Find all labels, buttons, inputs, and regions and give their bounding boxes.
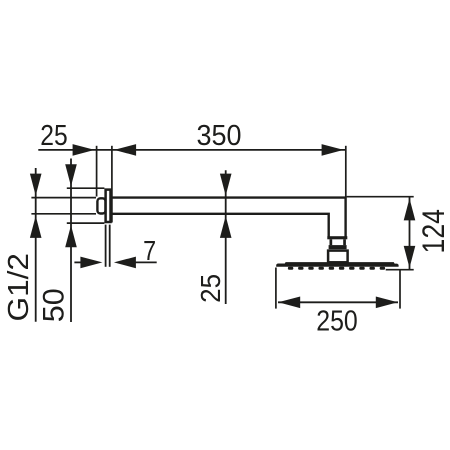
head nozzles <box>288 267 385 270</box>
25 arm arrow up <box>220 216 232 238</box>
svg-text:25: 25 <box>40 120 67 152</box>
shower arm inner edge <box>112 214 329 238</box>
50 dimension line <box>70 159 72 323</box>
G1/2 arrow down <box>30 174 42 196</box>
shower head slab <box>276 262 398 267</box>
top dimension line (25 / 350) <box>38 149 346 151</box>
svg-text:7: 7 <box>143 235 156 266</box>
G1/2 ext line bottom <box>31 213 96 215</box>
svg-text:250: 250 <box>316 306 358 338</box>
124 ext line bottom <box>386 269 414 271</box>
svg-text:G1/2: G1/2 <box>3 253 35 322</box>
250 arrow right <box>376 297 398 309</box>
wall flange plate <box>106 190 111 222</box>
connector neck left wall <box>330 239 333 245</box>
drop shoulder band <box>327 236 347 239</box>
50 ext line top <box>67 187 105 189</box>
250 arrow left <box>278 297 300 309</box>
G1/2 dimension line <box>35 168 37 322</box>
extension line wall plane <box>96 146 98 197</box>
25 arm arrow down <box>220 174 232 196</box>
7 dimension left segment <box>74 261 86 263</box>
G1/2 arrow up <box>30 216 42 238</box>
shower arm outer edge <box>112 198 346 238</box>
svg-text:350: 350 <box>197 120 242 152</box>
250 ext line left <box>275 268 277 309</box>
arrowhead right toward wall ext line <box>73 144 95 156</box>
50 arrow down <box>65 164 77 186</box>
7 dimension right segment <box>130 261 157 263</box>
250 dimension line <box>278 301 398 303</box>
50 ext line bottom <box>67 222 105 224</box>
wall pipe stub G1/2 <box>97 198 105 213</box>
124 arrow down <box>404 246 416 268</box>
connector neck right wall <box>343 239 346 245</box>
124 ext line top <box>347 196 414 198</box>
7 ext line right <box>109 225 111 267</box>
arrowhead right at arm end ext line <box>322 144 344 156</box>
250 ext line right <box>399 271 401 309</box>
G1/2 ext line top <box>31 197 96 199</box>
25 arm diameter dimension line <box>225 170 227 304</box>
7 ext line left <box>105 225 107 267</box>
7 arrow left <box>114 257 136 269</box>
7 arrow right <box>80 257 102 269</box>
extension line arm end <box>345 146 347 197</box>
svg-text:50: 50 <box>38 288 70 322</box>
124 arrow up <box>404 198 416 220</box>
124 dimension line <box>409 197 411 270</box>
svg-text:124: 124 <box>415 209 450 254</box>
50 arrow up <box>65 225 77 247</box>
arrowhead left at flange ext line <box>114 144 136 156</box>
svg-text:25: 25 <box>195 274 226 303</box>
connector base <box>328 251 348 263</box>
extension line flange face <box>111 146 113 223</box>
connector nut band <box>329 245 347 249</box>
